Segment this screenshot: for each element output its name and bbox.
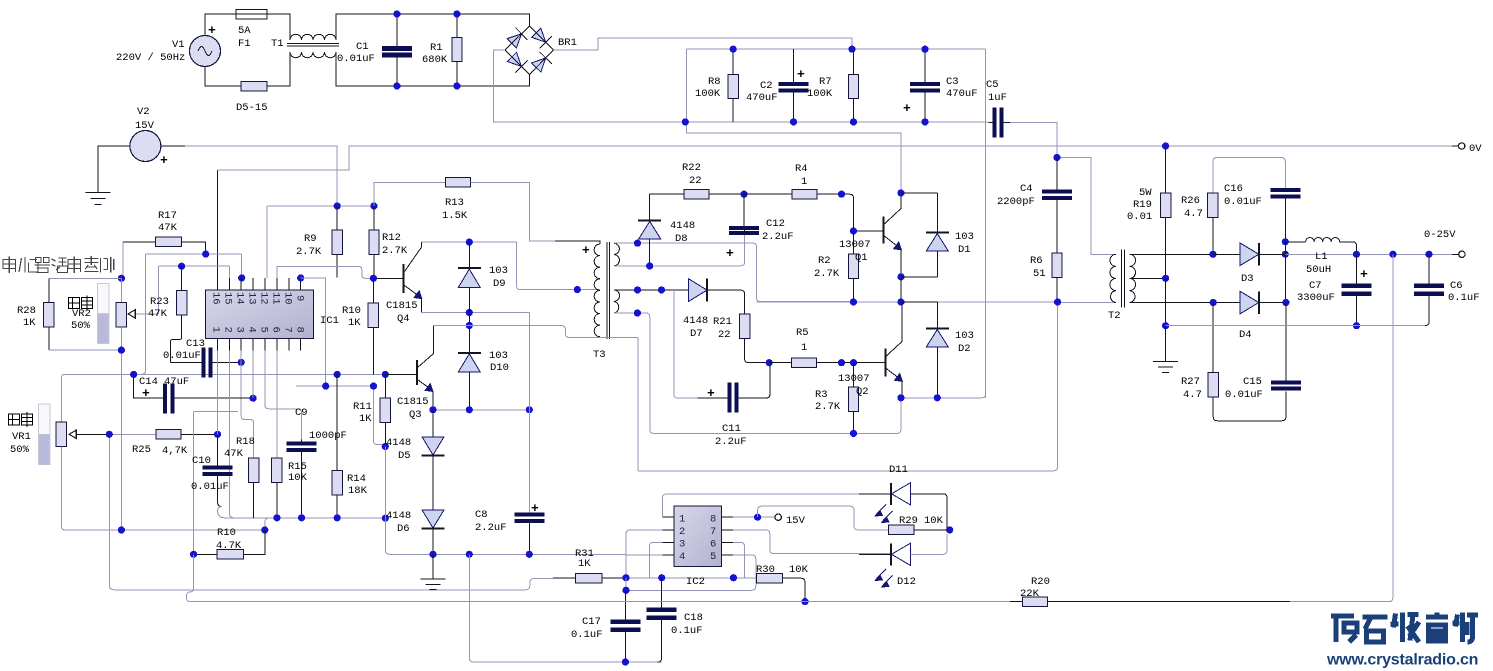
wire T3 secB bottom to R3 bus [614, 313, 897, 433]
capacitor C8 [514, 513, 544, 555]
wire pin5 to C9 top [265, 351, 302, 440]
wire VR1 bottom y530 [61, 447, 264, 531]
svg-text:5A: 5A [238, 25, 251, 37]
wire pin3 [649, 542, 662, 577]
svg-text:R6: R6 [1030, 255, 1043, 267]
svg-text:4148: 4148 [670, 220, 695, 232]
wire T2 secondary center tap [1130, 277, 1166, 279]
ground symbol near V2 [86, 193, 111, 205]
svg-text:www.crystalradio.cn: www.crystalradio.cn [1326, 652, 1478, 669]
svg-text:6: 6 [270, 327, 282, 333]
junction dot R10b left [190, 551, 197, 558]
junction dot C13 pin3 [238, 359, 245, 366]
svg-text:R7: R7 [819, 76, 832, 88]
svg-text:12: 12 [258, 292, 270, 305]
capacitor C11 [698, 363, 770, 413]
wire C11 left drop x674 [674, 290, 698, 398]
resistor R11 [380, 374, 390, 446]
junction dots Q1 [850, 189, 905, 280]
resistor R13 [446, 178, 471, 187]
wire D3 D4 cathode link x1285 [1284, 242, 1286, 303]
bridge rectifier BR1 [502, 22, 557, 78]
wire VR1 wiper drop x109 [109, 434, 526, 589]
wire BR1 plus output to HV bus [554, 38, 853, 50]
svg-text:103: 103 [955, 330, 974, 342]
resistor R30 [756, 574, 805, 602]
junction dots Q2 base [838, 359, 857, 366]
svg-text:D5: D5 [398, 450, 411, 462]
junction dots output row [1353, 251, 1433, 258]
svg-text:11: 11 [270, 292, 282, 305]
capacitor C12 [729, 194, 759, 235]
resistor R21 [739, 314, 769, 363]
wire pin4 [626, 554, 663, 556]
wire pin7 to D12 [733, 530, 891, 554]
wire x193 net top [194, 412, 238, 555]
svg-text:R2: R2 [818, 255, 831, 267]
svg-text:2.7K: 2.7K [814, 268, 840, 280]
svg-text:4: 4 [679, 551, 685, 563]
wire VR2 bottom long drop x121 [120, 350, 122, 531]
svg-text:C7: C7 [1309, 280, 1322, 292]
junction dots y397 [897, 394, 941, 401]
transistor Q1 [854, 193, 903, 277]
wire R20 right to feedback riser [1290, 601, 1389, 603]
transformer T1 common-mode choke [287, 34, 339, 58]
svg-text:51: 51 [1033, 268, 1046, 280]
transistor Q2 [854, 302, 904, 398]
svg-text:+: + [531, 501, 539, 516]
svg-text:2.2uF: 2.2uF [715, 436, 747, 448]
wire Q4 emitter row y312 [422, 312, 530, 314]
svg-text:D8: D8 [675, 233, 688, 245]
transistor Q3 [385, 326, 433, 410]
wire T3 secA bottom to C12 [614, 235, 745, 266]
wire lineA VR1 top C14 R14 Q3 base [61, 374, 385, 422]
wire fuse to T1 [267, 14, 290, 40]
wire pin9 to lineB [301, 278, 326, 386]
junction dots VR2 bottom [118, 347, 125, 354]
svg-text:1K: 1K [359, 413, 372, 425]
capacitor C9 [287, 440, 317, 518]
wire VR2 wiper riser x145 [134, 254, 146, 374]
svg-text:R9: R9 [304, 233, 317, 245]
potentiometer VR1 [39, 404, 77, 465]
wire R11 bottom to D6 row [385, 447, 626, 555]
diode D10 [458, 326, 481, 410]
wire BR1 minus to HV minus bus y122 [494, 50, 686, 122]
junction dots control left [118, 251, 245, 282]
wire x470 drop to C17 C18 return [469, 554, 661, 662]
wire R25 right to C10 [181, 433, 217, 435]
svg-text:0.1uF: 0.1uF [671, 625, 703, 637]
wire snubber box R26 C16 [1213, 158, 1285, 194]
svg-text:4148: 4148 [386, 437, 411, 449]
wire R13 left link [374, 182, 446, 206]
junction dots y242 y289 [466, 239, 581, 294]
svg-text:C16: C16 [1224, 183, 1243, 195]
svg-text:47K: 47K [224, 448, 244, 460]
svg-text:1: 1 [210, 327, 222, 333]
svg-text:16: 16 [210, 292, 222, 305]
svg-text:C5: C5 [986, 79, 999, 91]
svg-text:4148: 4148 [683, 315, 708, 327]
capacitor C4 [1042, 158, 1072, 254]
svg-text:C4: C4 [1020, 183, 1033, 195]
wire T1 bottom right [336, 52, 530, 86]
resistor R2 [848, 231, 858, 302]
wire D4 anode to R27 [1212, 303, 1214, 373]
svg-text:C6: C6 [1450, 280, 1463, 292]
junction dot x469 y325 [466, 322, 473, 329]
svg-text:R12: R12 [382, 232, 401, 244]
svg-text:0.01uF: 0.01uF [191, 481, 229, 493]
wire pin8 to 15V [733, 516, 775, 518]
svg-text:22: 22 [689, 175, 702, 187]
wire T2 secondary top [1130, 253, 1213, 255]
capacitor C10 [203, 434, 233, 506]
wire y590 line [626, 578, 752, 591]
resistor R10b 4.7K [194, 530, 265, 559]
svg-text:R23: R23 [150, 296, 169, 308]
wire pin6 drop to R15 [276, 351, 278, 459]
svg-text:13007: 13007 [839, 239, 871, 251]
svg-text:13007: 13007 [838, 373, 870, 385]
source V1 [190, 23, 221, 67]
svg-text:2.7K: 2.7K [296, 246, 322, 258]
junction dot R30 drop [801, 598, 808, 605]
svg-text:2.2uF: 2.2uF [762, 231, 794, 243]
svg-text:R1: R1 [430, 42, 443, 54]
wire V2 left to ground [98, 146, 130, 192]
diode D3 [1213, 243, 1285, 266]
svg-text:0.01: 0.01 [1127, 211, 1152, 223]
wire T3 secA top to Q1 drive [614, 243, 854, 301]
svg-text:22: 22 [718, 329, 731, 341]
LED D12 [859, 534, 947, 588]
wire bus y470 to midpoint [638, 303, 1058, 471]
terminal 15V [775, 514, 781, 520]
svg-text:3: 3 [679, 539, 685, 551]
resistor R19 [1160, 146, 1170, 278]
wire Q3 collector to T3 primary bottom loop [434, 326, 638, 338]
wire R17 left to node278 [122, 242, 124, 278]
svg-text:4.7K: 4.7K [216, 540, 242, 552]
svg-text:0.01uF: 0.01uF [1225, 389, 1263, 401]
resistor R12 [369, 206, 379, 278]
wire C5 to T2 primary top [1010, 123, 1057, 158]
junction dots D3 row [1209, 238, 1289, 258]
junction dot y590 [622, 587, 629, 594]
wire D9 bottom to bus325 [468, 313, 470, 326]
svg-text:C13: C13 [186, 338, 205, 350]
svg-text:5W: 5W [1139, 187, 1152, 199]
junction dot C12 top [740, 191, 747, 198]
junction dot secB bottom [634, 309, 641, 316]
svg-text:C1: C1 [356, 41, 369, 53]
svg-text:13: 13 [246, 292, 258, 305]
svg-text:10K: 10K [288, 472, 308, 484]
wire pin4 drop [252, 351, 254, 399]
svg-text:R5: R5 [796, 327, 809, 339]
wire net R17R dot254 to pin14 [146, 254, 242, 278]
svg-text:1: 1 [679, 514, 685, 526]
wire HV plus bus y49 [687, 48, 986, 50]
junction dot secA bottom D8 [646, 262, 653, 269]
svg-text:VR2: VR2 [72, 308, 91, 320]
junction dots R19 [1162, 142, 1169, 282]
junction dot R3 bottom [850, 430, 857, 437]
svg-text:8: 8 [710, 514, 716, 526]
wire output ground bus y326 [1166, 325, 1425, 327]
wire V2 to R9 top 15V [161, 145, 185, 147]
wire T3 primary bottom drop [600, 337, 638, 471]
wire net pin12 R9 R12 y206 [267, 206, 374, 278]
svg-text:C3: C3 [946, 76, 959, 88]
junction dot secA top [634, 240, 641, 247]
varistor D5-15 [241, 82, 267, 92]
junction dots C8 row [466, 551, 533, 558]
svg-text:47K: 47K [148, 308, 168, 320]
svg-text:BR1: BR1 [558, 37, 577, 49]
svg-text:R28: R28 [17, 305, 36, 317]
junction dots lineA [130, 371, 389, 378]
wire Q2 emitter row y397 [901, 394, 986, 398]
junction dot center tap ground [1162, 322, 1169, 329]
junction dot R29 right [946, 526, 953, 533]
wire output row y254 [1285, 253, 1452, 255]
junction dot Q4 base [370, 275, 377, 282]
svg-text:2: 2 [222, 327, 234, 333]
wire center tap down to bus325 [1165, 278, 1167, 325]
svg-text:0.1uF: 0.1uF [1448, 292, 1480, 304]
wire V1 bottom to D5-15 [205, 67, 241, 87]
svg-text:D11: D11 [889, 464, 908, 476]
wire Q3 emitter row y409 [433, 409, 529, 411]
svg-text:R26: R26 [1181, 195, 1200, 207]
junction dots y578 [622, 574, 737, 581]
wire Q4 collector row y242 [422, 242, 600, 290]
svg-text:R22: R22 [682, 162, 701, 174]
svg-text:D7: D7 [690, 328, 703, 340]
junction dots lineB [322, 383, 377, 390]
svg-text:4: 4 [246, 327, 258, 333]
potentiometer VR2 [98, 283, 136, 343]
svg-text:15: 15 [222, 292, 234, 305]
terminal 0-25V [1459, 251, 1465, 257]
capacitor C7 [1342, 254, 1372, 325]
wire pin1 loop to D11 [663, 494, 891, 517]
wire Q1 emitter to y302 [900, 277, 902, 302]
svg-text:F1: F1 [238, 38, 251, 50]
wire pin11 to Q4 base [277, 266, 374, 278]
svg-text:8: 8 [294, 327, 306, 333]
junction dots bus518 [273, 514, 389, 522]
wire net R28 VR2 top y278 [49, 278, 122, 302]
svg-text:1.5K: 1.5K [442, 210, 468, 222]
capacitor C14 [134, 374, 253, 413]
wire HV minus rail drop x985 [985, 49, 987, 398]
IC2 comparator [663, 506, 734, 566]
resistor R31 [526, 574, 626, 590]
junction dot C14 pin4 [250, 395, 257, 402]
junction dots AC top/bottom [393, 10, 460, 89]
svg-text:100K: 100K [807, 88, 833, 100]
svg-text:0.01uF: 0.01uF [163, 350, 201, 362]
svg-text:C17: C17 [582, 616, 601, 628]
svg-text:103: 103 [489, 350, 508, 362]
resistor R10 [368, 278, 378, 374]
svg-text:Q4: Q4 [397, 313, 410, 325]
resistor R22 [650, 190, 744, 199]
wire C10 R18 bottom U link [218, 507, 386, 518]
svg-text:R19: R19 [1133, 199, 1152, 211]
svg-text:Q1: Q1 [855, 252, 868, 264]
wire vertical x686 rail link [687, 49, 901, 193]
wire R31 R30 row y578 [626, 577, 756, 579]
svg-text:47K: 47K [158, 222, 178, 234]
svg-text:D4: D4 [1239, 329, 1252, 341]
IC1 PWM controller [206, 278, 314, 351]
resistor R7 [848, 49, 858, 122]
resistor R6 [1052, 253, 1062, 303]
svg-text:10: 10 [282, 292, 294, 305]
svg-text:R30: R30 [756, 564, 775, 576]
svg-text:C9: C9 [295, 407, 308, 419]
resistor R17 [123, 237, 206, 254]
chinese label tiaoya VR1 [9, 412, 33, 427]
svg-text:4.7: 4.7 [1183, 389, 1202, 401]
wire node157 to T2 primary [1057, 158, 1116, 255]
svg-text:C2: C2 [760, 80, 773, 92]
svg-text:VR1: VR1 [12, 431, 31, 443]
svg-text:R10: R10 [342, 305, 361, 317]
wire pin3 to R18 [241, 351, 254, 459]
resistor R18 [249, 458, 259, 518]
resistor R3 [848, 363, 858, 434]
capacitor C16 [1270, 188, 1300, 242]
junction dots HV rails [682, 46, 1061, 161]
svg-text:C1815: C1815 [397, 396, 429, 408]
capacitor C6 [1414, 254, 1444, 325]
resistor R27 [1208, 372, 1286, 420]
svg-text:R8: R8 [708, 76, 721, 88]
svg-text:+: + [160, 153, 168, 168]
svg-text:10K: 10K [924, 515, 944, 527]
svg-text:1K: 1K [23, 317, 36, 329]
svg-text:+: + [797, 67, 805, 82]
svg-text:2.7K: 2.7K [382, 245, 408, 257]
capacitor C3 [910, 49, 940, 122]
svg-text:D2: D2 [958, 343, 971, 355]
svg-text:C18: C18 [684, 612, 703, 624]
svg-text:470uF: 470uF [746, 92, 778, 104]
capacitor C15 [1271, 303, 1301, 391]
svg-text:R27: R27 [1181, 376, 1200, 388]
svg-text:C11: C11 [722, 423, 741, 435]
svg-text:7: 7 [710, 526, 716, 538]
terminal 0V [1459, 143, 1465, 149]
watermark logo kuangshi shouyinji [1331, 613, 1478, 643]
wire lineB pin9 to R11 bottom [296, 386, 385, 446]
wire V1 top to fuse [205, 14, 236, 36]
diode D6 [422, 510, 445, 554]
resistor R1 [452, 14, 462, 86]
junction dot C17 bottom [622, 658, 629, 665]
svg-text:R4: R4 [795, 163, 808, 175]
chinese heading dianweiqi text [3, 256, 114, 273]
capacitor C5 [989, 108, 1011, 138]
resistor R26 [1208, 193, 1218, 254]
resistor R14 [332, 374, 342, 517]
svg-text:2200pF: 2200pF [997, 196, 1035, 208]
svg-text:R17: R17 [158, 210, 177, 222]
wire pin6 [733, 542, 745, 577]
capacitor C17 [610, 590, 640, 662]
wire bottom bus y601 to R20 [190, 601, 1022, 603]
svg-text:680K: 680K [422, 54, 448, 66]
junction dot R21 C11 R5 [766, 359, 773, 366]
svg-text:220V / 50Hz: 220V / 50Hz [116, 52, 185, 64]
capacitor C18 [647, 578, 677, 662]
diode D5 [422, 410, 445, 510]
svg-text:V2: V2 [137, 106, 150, 118]
junction dot R4 right [838, 191, 845, 198]
svg-text:D12: D12 [897, 576, 916, 588]
junction dots R25 row [106, 431, 221, 438]
junction dots y302 [850, 298, 1061, 305]
wire pin5 [733, 555, 756, 590]
svg-text:50uH: 50uH [1306, 264, 1331, 276]
svg-text:0-25V: 0-25V [1424, 229, 1456, 241]
svg-text:0.01uF: 0.01uF [1224, 196, 1262, 208]
wire T2 secondary bottom [1130, 302, 1214, 304]
svg-text:T3: T3 [593, 349, 606, 361]
resistor R20 [1010, 597, 1290, 606]
svg-text:D5-15: D5-15 [236, 102, 268, 114]
svg-text:+: + [582, 243, 590, 258]
svg-text:Q2: Q2 [856, 386, 869, 398]
svg-text:D10: D10 [490, 362, 509, 374]
junction dot R11 bottom [382, 443, 389, 450]
svg-text:R29: R29 [899, 515, 918, 527]
svg-text:+: + [903, 101, 911, 116]
junction dots y530 [118, 526, 269, 533]
wire D5-15 to T1 bottom [267, 52, 290, 86]
junction dot D6 bottom [429, 551, 436, 558]
svg-text:R25: R25 [132, 444, 151, 456]
diode D4 [1213, 291, 1285, 314]
svg-text:C10: C10 [192, 455, 211, 467]
resistor R29 [888, 525, 949, 534]
svg-text:100K: 100K [695, 88, 721, 100]
svg-text:IC2: IC2 [686, 576, 705, 588]
svg-text:R3: R3 [815, 389, 828, 401]
svg-text:T2: T2 [1108, 310, 1121, 322]
svg-text:R18: R18 [236, 436, 255, 448]
junction dot C7 bottom [1353, 322, 1360, 329]
svg-text:470uF: 470uF [946, 88, 978, 100]
svg-text:D6: D6 [397, 523, 410, 535]
svg-text:2.7K: 2.7K [815, 401, 841, 413]
junction dots secB top [634, 286, 665, 293]
diode D9 [458, 242, 481, 312]
svg-text:50%: 50% [10, 444, 30, 456]
diode D7 [688, 279, 744, 315]
wire x193 to bottom bus [186, 554, 193, 601]
svg-text:50%: 50% [71, 320, 91, 332]
svg-text:1000pF: 1000pF [309, 430, 347, 442]
